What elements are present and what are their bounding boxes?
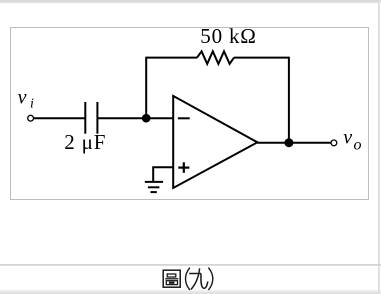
output terminal (open circle): [331, 140, 337, 146]
svg-text:i: i: [30, 96, 34, 111]
figure frame: [10, 27, 369, 200]
caption glyph: CJK "tu" (figure): [163, 270, 180, 287]
label v_o: [343, 126, 361, 153]
input terminal (open circle): [28, 115, 34, 121]
svg-text:2 μF: 2 μF: [64, 130, 106, 154]
wire op-amp output to terminal: [257, 142, 330, 144]
inverting input minus sign: [178, 117, 190, 119]
wire feedback down to output node: [288, 57, 290, 143]
svg-text:v: v: [18, 87, 27, 109]
label v_i: [18, 87, 34, 112]
non-inverting input plus sign: [178, 162, 189, 173]
output node junction dot: [284, 138, 293, 147]
caption glyph: CJK "jiu" (nine): [189, 268, 208, 289]
wire capacitor to node A: [97, 117, 146, 119]
caption divider line: [0, 264, 381, 266]
wire feedback right segment: [234, 57, 289, 59]
top page edge strip: [0, 0, 381, 4]
op-amp U1 triangle: [173, 96, 257, 188]
right page border: [378, 0, 380, 294]
node A junction dot: [142, 114, 151, 123]
wire input to capacitor: [34, 117, 86, 119]
wire non-inverting input to ground: [153, 167, 172, 181]
svg-text:v: v: [343, 126, 352, 148]
capacitor C1 2uF: [85, 102, 97, 134]
ground symbol: [145, 182, 163, 192]
caption open paren: [186, 268, 190, 291]
svg-text:50 kΩ: 50 kΩ: [200, 24, 256, 48]
svg-text:o: o: [354, 137, 362, 154]
resistor R1 50k zigzag: [197, 51, 234, 64]
wire node A to op-amp inverting input: [146, 117, 172, 119]
wire node A up to feedback: [145, 58, 147, 119]
wire feedback left segment: [145, 57, 197, 59]
caption close paren: [208, 268, 212, 291]
bottom page edge strip: [0, 289, 381, 294]
